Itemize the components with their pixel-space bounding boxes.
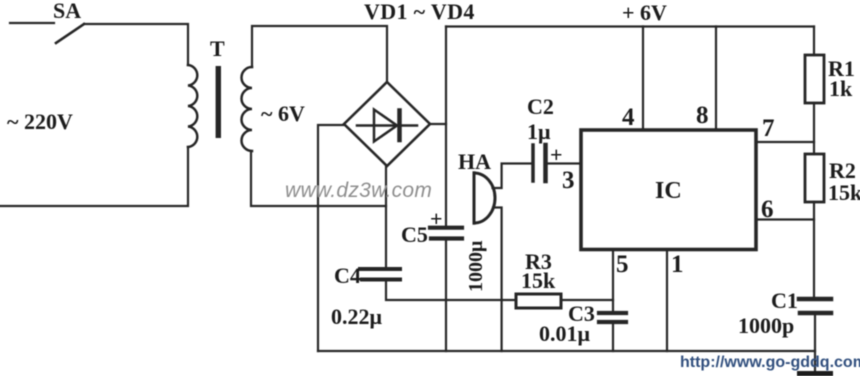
wire: IC pin 4 to +6V rail: [642, 27, 644, 131]
wire: +6V rail to R1: [813, 27, 815, 56]
capacitor C5: [430, 228, 462, 239]
svg-text:SA: SA: [53, 0, 81, 23]
svg-text:http://www.go-gddq.com: http://www.go-gddq.com: [680, 354, 860, 371]
svg-text:15k: 15k: [521, 268, 556, 293]
capacitor C2: [533, 145, 546, 181]
wire: C4 to R3 node: [386, 281, 516, 300]
svg-text:1: 1: [671, 251, 684, 278]
wire: secondary top to bridge AC1: [252, 26, 387, 82]
IC U1 box: [581, 130, 756, 250]
buzzer HA: [474, 173, 495, 223]
wire: R1 to R2: [813, 103, 815, 154]
svg-text:1k: 1k: [829, 76, 853, 101]
wire: IC pin 7 to R1/R2 junction: [756, 141, 814, 143]
wire: AC input stub: [10, 22, 54, 24]
bridge rectifier VD1~VD4 diamond: [344, 82, 430, 166]
wire: R2 to C1: [813, 202, 815, 297]
bridge diode symbol: [357, 110, 417, 142]
svg-text:+: +: [430, 206, 443, 231]
svg-text:C2: C2: [527, 94, 554, 119]
svg-text:1000μ: 1000μ: [465, 240, 487, 292]
capacitor C3: [599, 313, 626, 322]
wire: bridge positive output: [430, 123, 446, 125]
svg-text:6: 6: [761, 196, 774, 223]
svg-text:C5: C5: [401, 222, 428, 247]
svg-text:~ 220V: ~ 220V: [7, 109, 73, 134]
wire: C2 to IC pin 3: [546, 162, 582, 164]
power rail +6V: [446, 25, 814, 27]
ground rail: [318, 350, 815, 352]
svg-text:HA: HA: [458, 149, 491, 174]
wire: secondary bottom to bridge AC2 node: [251, 151, 386, 206]
transformer T secondary winding: [242, 67, 253, 151]
svg-text:0.22μ: 0.22μ: [331, 304, 383, 329]
svg-text:8: 8: [696, 102, 709, 129]
svg-text:C4: C4: [334, 263, 361, 288]
capacitor C1: [799, 299, 831, 313]
svg-text:1μ: 1μ: [527, 119, 551, 144]
wire: HA bottom terminal to ground rail: [493, 208, 502, 352]
wire: bridge bottom AC node to C4: [385, 166, 387, 267]
transformer T core: [216, 66, 221, 138]
resistor R2: [805, 154, 824, 202]
wire: IC pin 8 to +6V rail: [715, 27, 717, 131]
switch SA blade: [56, 24, 84, 43]
svg-text:C1: C1: [771, 288, 798, 313]
wire: C3 to ground rail: [612, 324, 614, 351]
wire: C1 to ground: [814, 315, 816, 372]
resistor R1: [805, 55, 824, 103]
svg-text:0.01μ: 0.01μ: [539, 321, 591, 346]
wire: IC pin 6 to R2/C1 node: [756, 218, 814, 220]
wire: R3 to pin5/C3 node: [561, 299, 613, 301]
svg-text:5: 5: [616, 251, 629, 278]
wire: switch to transformer primary top: [84, 24, 188, 65]
wire: IC pin 1 to ground rail: [666, 250, 668, 351]
svg-text:3: 3: [562, 167, 575, 194]
wire: bridge negative output to ground rail: [318, 125, 344, 351]
svg-text:~ 6V: ~ 6V: [261, 101, 305, 126]
wire: +6V riser: [445, 27, 447, 227]
svg-text:15k: 15k: [828, 180, 860, 205]
wire: primary bottom return: [0, 147, 188, 206]
svg-text:4: 4: [622, 104, 635, 131]
resistor R3: [516, 294, 561, 308]
svg-text:VD1 ~ VD4: VD1 ~ VD4: [364, 0, 475, 24]
svg-text:IC: IC: [655, 178, 682, 204]
svg-text:T: T: [210, 36, 225, 61]
svg-text:www.dz3w.com: www.dz3w.com: [285, 179, 432, 202]
capacitor C4: [360, 269, 400, 280]
transformer T primary winding: [188, 65, 197, 147]
wire: IC pin 5 to C3: [612, 250, 614, 311]
svg-text:+ 6V: + 6V: [622, 0, 667, 25]
wire: HA top terminal to C2: [493, 164, 532, 189]
svg-text:7: 7: [762, 115, 775, 142]
wire: C5 to ground rail: [445, 240, 447, 351]
ground symbol: [797, 371, 833, 376]
svg-text:1000p: 1000p: [738, 313, 794, 338]
